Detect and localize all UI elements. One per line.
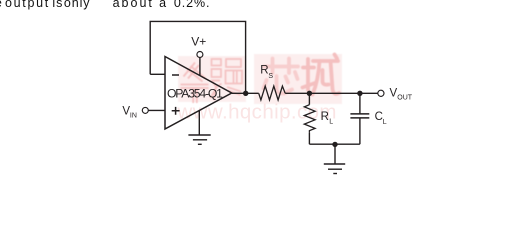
node feedback junction bbox=[243, 91, 248, 96]
svg-text:L: L bbox=[329, 119, 333, 126]
svg-text:R: R bbox=[321, 111, 329, 123]
node ground junction bbox=[332, 142, 337, 147]
resistor RL bbox=[304, 105, 315, 133]
svg-text:V+: V+ bbox=[191, 35, 206, 49]
ground (load) bbox=[324, 164, 345, 174]
svg-text:is: is bbox=[52, 0, 63, 10]
wire RL top lead bbox=[308, 93, 310, 104]
wire ground stem bbox=[334, 144, 336, 164]
resistor RS bbox=[259, 86, 286, 100]
svg-text:R: R bbox=[260, 65, 268, 77]
wire non-inverting input bbox=[148, 109, 165, 111]
VIN input terminal circle bbox=[142, 107, 148, 113]
svg-text:e: e bbox=[0, 0, 3, 10]
watermark chinese char 3 (xin, solid) bbox=[264, 59, 299, 94]
wire bottom rail RL to CL bbox=[309, 143, 360, 145]
svg-text:V: V bbox=[390, 87, 398, 99]
op-amp U1 OPA354-Q1 triangle bbox=[165, 57, 232, 130]
wire V- pin to ground bbox=[198, 111, 200, 135]
svg-text:about: about bbox=[113, 0, 154, 10]
wire CL node to output terminal bbox=[360, 92, 378, 94]
svg-text:S: S bbox=[268, 73, 273, 80]
wire inverting input bbox=[150, 73, 165, 75]
wire RL bottom lead bbox=[308, 133, 310, 144]
svg-text:OUT: OUT bbox=[397, 94, 413, 101]
node CL junction bbox=[357, 91, 362, 96]
wire CL bottom lead bbox=[359, 118, 361, 144]
svg-text:OPA354-Q1: OPA354-Q1 bbox=[167, 86, 223, 100]
svg-text:output: output bbox=[5, 0, 50, 10]
op-amp minus sign bbox=[172, 74, 179, 76]
svg-text:L: L bbox=[383, 119, 387, 126]
svg-text:a: a bbox=[159, 0, 167, 10]
svg-text:C: C bbox=[375, 111, 383, 123]
wire RS to RL node bbox=[285, 92, 309, 94]
wire CL top lead bbox=[359, 93, 361, 114]
V+ supply terminal circle bbox=[197, 52, 203, 58]
wire RL node to CL node bbox=[309, 92, 360, 94]
wire V+ stem bbox=[199, 57, 201, 75]
ground (op-amp) bbox=[188, 135, 210, 144]
svg-text:IN: IN bbox=[130, 112, 137, 119]
watermark chinese char 1 (hua, outline style) bbox=[181, 63, 209, 104]
svg-text:only: only bbox=[64, 0, 91, 10]
op-amp plus sign bbox=[172, 107, 180, 115]
VOUT output terminal circle bbox=[378, 90, 384, 96]
node RL junction bbox=[307, 91, 312, 96]
wire op-amp output bbox=[232, 92, 259, 94]
capacitor CL bbox=[350, 114, 369, 118]
svg-text:0.2%.: 0.2%. bbox=[174, 0, 210, 10]
watermark halo wash bbox=[178, 54, 342, 104]
top document text: e output is only about a 0.2%. bbox=[0, 0, 210, 10]
watermark chinese char 2 (qiang, outline style) bbox=[211, 59, 243, 100]
wire feedback loop (top, left, right verticals) bbox=[150, 21, 245, 93]
watermark chinese char 4 (cheng, solid) bbox=[303, 55, 340, 95]
